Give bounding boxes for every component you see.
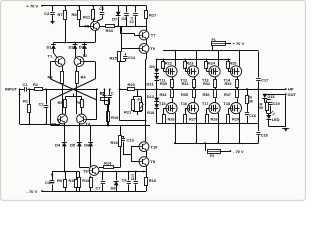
svg-text:R17: R17 xyxy=(149,13,157,18)
svg-text:LED: LED xyxy=(272,118,280,122)
svg-text:OUT: OUT xyxy=(288,92,297,97)
svg-text:R2: R2 xyxy=(33,83,38,87)
svg-text:10: 10 xyxy=(130,20,134,24)
svg-text:C17: C17 xyxy=(261,77,269,82)
svg-text:C18: C18 xyxy=(261,133,268,137)
svg-text:R28: R28 xyxy=(211,117,218,121)
svg-text:R19: R19 xyxy=(111,115,119,120)
svg-text:R10: R10 xyxy=(69,179,76,183)
svg-text:R33: R33 xyxy=(225,82,232,86)
svg-text:38: 38 xyxy=(249,99,253,103)
svg-text:R31: R31 xyxy=(182,82,189,86)
svg-text:R20: R20 xyxy=(128,82,136,87)
svg-text:T18: T18 xyxy=(224,102,231,106)
svg-text:R1: R1 xyxy=(23,99,29,104)
svg-text:R8: R8 xyxy=(72,12,78,17)
svg-text:T17: T17 xyxy=(202,102,209,106)
svg-text:T9: T9 xyxy=(150,46,155,51)
svg-text:R22: R22 xyxy=(165,62,172,66)
svg-text:D11: D11 xyxy=(147,82,155,87)
svg-text:C5: C5 xyxy=(100,92,105,96)
svg-text:C12: C12 xyxy=(128,55,136,60)
svg-text:F2: F2 xyxy=(210,154,214,158)
svg-text:- 70 V: - 70 V xyxy=(27,189,38,194)
svg-text:R11: R11 xyxy=(83,14,91,19)
svg-text:D8: D8 xyxy=(111,186,117,191)
svg-text:R25: R25 xyxy=(229,62,236,66)
svg-text:R18: R18 xyxy=(147,111,154,115)
svg-text:C: C xyxy=(111,92,114,96)
svg-text:C1: C1 xyxy=(23,83,28,87)
svg-text:R23: R23 xyxy=(186,62,193,66)
svg-text:R10: R10 xyxy=(149,178,157,183)
svg-text:R33: R33 xyxy=(106,28,114,33)
svg-text:D7: D7 xyxy=(112,17,118,22)
svg-text:T8: T8 xyxy=(151,159,156,164)
svg-text:R24: R24 xyxy=(208,62,216,66)
svg-text:D12: D12 xyxy=(147,94,155,99)
svg-text:R32: R32 xyxy=(203,82,210,86)
svg-text:R27: R27 xyxy=(189,117,196,121)
svg-text:T2: T2 xyxy=(83,53,88,58)
svg-text:R13: R13 xyxy=(82,179,89,183)
svg-text:R4: R4 xyxy=(81,75,87,80)
svg-text:R15: R15 xyxy=(110,55,118,60)
svg-text:C2: C2 xyxy=(39,102,45,107)
svg-text:T16: T16 xyxy=(181,102,188,106)
svg-text:D13: D13 xyxy=(268,95,275,99)
svg-text:C19: C19 xyxy=(273,102,280,106)
svg-text:D9: D9 xyxy=(150,64,156,69)
svg-text:R5: R5 xyxy=(58,100,64,105)
svg-text:C7: C7 xyxy=(96,186,102,191)
svg-text:R29: R29 xyxy=(232,117,239,121)
svg-text:C4: C4 xyxy=(44,11,50,16)
svg-text:R9: R9 xyxy=(57,178,63,183)
svg-text:HP: HP xyxy=(288,87,294,92)
svg-text:T7: T7 xyxy=(151,33,156,38)
svg-text:+ 70 V: + 70 V xyxy=(233,41,245,46)
svg-text:T1: T1 xyxy=(48,54,53,59)
svg-text:R34: R34 xyxy=(160,93,168,97)
svg-text:R7: R7 xyxy=(58,12,64,17)
svg-text:R16: R16 xyxy=(111,140,119,145)
svg-text:R35: R35 xyxy=(181,93,188,97)
svg-text:D4: D4 xyxy=(55,142,61,147)
svg-text:C16: C16 xyxy=(249,114,256,118)
svg-text:C13: C13 xyxy=(127,138,135,143)
svg-text:R21: R21 xyxy=(124,109,132,114)
svg-text:R26: R26 xyxy=(168,117,175,121)
svg-text:39: 39 xyxy=(259,106,263,110)
svg-text:D5: D5 xyxy=(70,142,76,147)
svg-text:T15: T15 xyxy=(159,102,166,106)
svg-text:R36: R36 xyxy=(203,93,210,97)
svg-text:- 70 V: - 70 V xyxy=(233,149,244,154)
svg-text:C6: C6 xyxy=(99,6,105,11)
svg-text:T10: T10 xyxy=(151,144,159,149)
svg-text:C9: C9 xyxy=(122,179,127,183)
svg-text:T6: T6 xyxy=(83,168,88,173)
svg-text:INPUT: INPUT xyxy=(5,86,18,91)
svg-text:11: 11 xyxy=(131,177,135,181)
svg-text:+ 70 V: + 70 V xyxy=(27,4,39,9)
svg-text:R37: R37 xyxy=(224,93,231,97)
svg-text:R30: R30 xyxy=(160,82,167,86)
svg-text:R6: R6 xyxy=(76,100,82,105)
svg-text:F1: F1 xyxy=(212,38,216,42)
svg-text:R14: R14 xyxy=(104,160,112,165)
